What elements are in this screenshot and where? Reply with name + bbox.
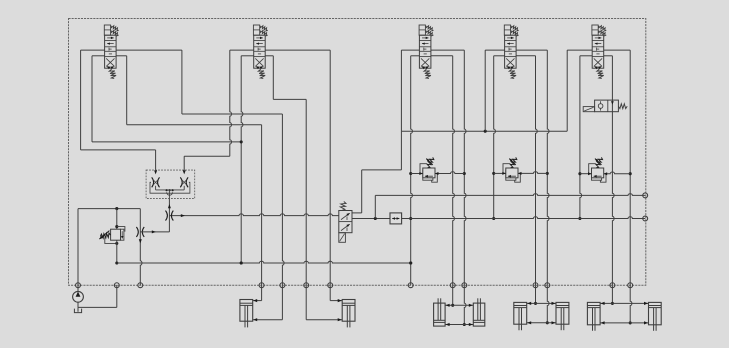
wire to C2 rod side xyxy=(306,285,342,321)
down arrow on T1 drop xyxy=(139,239,142,243)
wire V3 inner-right to cylinder pair 2 xyxy=(431,56,455,307)
main relief valve R1 xyxy=(99,209,125,265)
wire V5 outer-right to cylinder pair 4 xyxy=(604,50,632,324)
wire V4 outer-right to cylinder pair 3 xyxy=(516,50,549,324)
wire to C1 head xyxy=(253,285,262,302)
wire V3 inner-left tank xyxy=(409,56,419,285)
wire to C1 rod side xyxy=(253,285,283,321)
wire V1 outer-right to cylinder A rod side xyxy=(116,50,284,285)
secondary gallery lower xyxy=(402,216,648,221)
cylinder C8 body xyxy=(649,302,662,330)
wire V2 outer-left to flow divider xyxy=(184,50,254,170)
cylinder C3 body xyxy=(434,298,446,326)
cylinder C1 body xyxy=(240,300,253,328)
throttle T1 drop xyxy=(140,209,142,286)
wire V7 to orifice block xyxy=(352,195,390,220)
wire V5 outer-left xyxy=(567,50,592,131)
wire V4 inner-right to cylinder pair 3 xyxy=(516,56,537,305)
relief valve R4 xyxy=(494,157,548,182)
flow divider assembly FD1 xyxy=(146,170,195,199)
cylinder C4 body xyxy=(473,298,485,326)
directional control valve V1 xyxy=(104,25,118,78)
cylinder C2 body xyxy=(342,300,355,328)
wire T1 to flow divider return xyxy=(140,199,171,234)
relief valve R5 xyxy=(580,157,630,182)
throttle T2 xyxy=(166,211,174,221)
pump P1 xyxy=(73,285,84,307)
pilot operated valve V7 xyxy=(339,202,352,243)
secondary gallery upper xyxy=(375,193,647,198)
directional control valve V4 xyxy=(504,25,518,78)
manifold boundary (dashed enclosure) xyxy=(69,19,646,286)
manifold bottom ports xyxy=(76,283,633,288)
directional control valve V3 xyxy=(419,25,433,78)
cylinder C7 body xyxy=(587,302,600,330)
directional control valve V2 xyxy=(253,25,267,78)
throttle T1 xyxy=(136,227,144,237)
wire V3 outer-right to cylinder pair 2 xyxy=(431,50,466,326)
wires cylinder pair C3 C4 xyxy=(445,304,473,326)
tank return rail xyxy=(117,261,412,264)
wire V5 inner-right through unloading valve V8 xyxy=(604,56,614,305)
wires cylinder pair C5 C6 xyxy=(527,302,556,325)
wire to C2 head xyxy=(330,285,342,302)
wire P gallery xyxy=(401,130,567,133)
wire V2 inner-left tank drop xyxy=(240,56,254,265)
wire P supply to pilot valve V7 xyxy=(352,131,401,213)
directional control valve V5 xyxy=(592,25,606,78)
wire V5 inner-left tank xyxy=(578,56,592,220)
relief valve R3 xyxy=(411,157,465,182)
wire V2 inner-right to cylinder B rod side xyxy=(265,56,306,285)
wire V4 inner-left tank xyxy=(492,56,504,220)
wires cylinder pair C7 C8 xyxy=(600,302,648,325)
wire V4 outer-left xyxy=(485,50,504,131)
wire V1 inner-right to cylinder A head xyxy=(116,56,262,285)
orifice block S1 xyxy=(390,213,402,224)
wire V1 outer-left to flow divider xyxy=(81,50,156,170)
solenoid unloading valve V8 xyxy=(583,100,627,112)
wire V2 outer-right to cylinder B head xyxy=(265,50,330,285)
cylinder C6 body xyxy=(556,302,569,330)
wire V3 outer-left xyxy=(401,50,419,131)
load-sense line xyxy=(169,214,338,217)
wire V1 inner-left tank line xyxy=(92,56,241,142)
tank T1 xyxy=(74,285,116,312)
cylinder C5 body xyxy=(514,302,527,330)
pump pressure riser xyxy=(78,207,140,285)
